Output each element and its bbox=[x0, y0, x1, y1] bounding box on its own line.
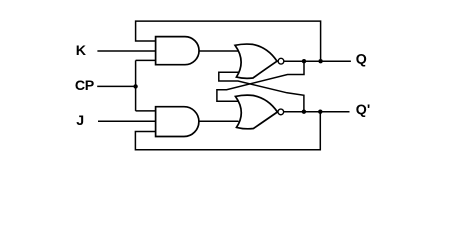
svg-text:Q: Q bbox=[356, 51, 367, 67]
svg-text:Q': Q' bbox=[356, 102, 370, 118]
svg-text:CP: CP bbox=[75, 78, 94, 94]
svg-text:J: J bbox=[76, 113, 84, 129]
svg-text:K: K bbox=[76, 43, 87, 59]
